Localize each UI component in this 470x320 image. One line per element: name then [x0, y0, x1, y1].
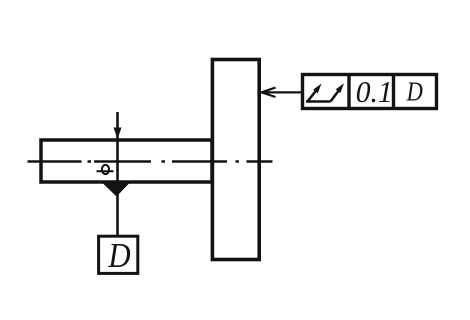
datum label box — [99, 236, 138, 273]
svg-text:D: D — [406, 78, 423, 107]
datum reference letter in frame — [406, 78, 423, 107]
svg-text:D: D — [107, 237, 130, 275]
down arrowhead on dimension line — [114, 128, 122, 140]
feature control frame — [303, 75, 437, 109]
leader open arrowhead — [262, 88, 276, 98]
total runout symbol first arrow — [308, 88, 319, 102]
leader line from frame to disk — [262, 91, 303, 93]
datum triangle (filled) — [103, 184, 129, 197]
datum letter D — [107, 237, 130, 275]
diameter symbol — [102, 165, 109, 174]
svg-text:0.1: 0.1 — [356, 76, 393, 109]
total runout symbol baseline — [306, 100, 331, 103]
tolerance value 0.1 — [356, 76, 393, 109]
disk (plate) outline — [212, 60, 259, 260]
total runout symbol second arrow — [331, 88, 342, 102]
frame divider 1 — [347, 75, 350, 109]
shaft (cylinder) outline — [41, 140, 212, 182]
centerline (dash-dot axis) — [28, 160, 273, 162]
frame divider 2 — [392, 75, 395, 109]
dimension leader vertical line — [116, 112, 119, 236]
